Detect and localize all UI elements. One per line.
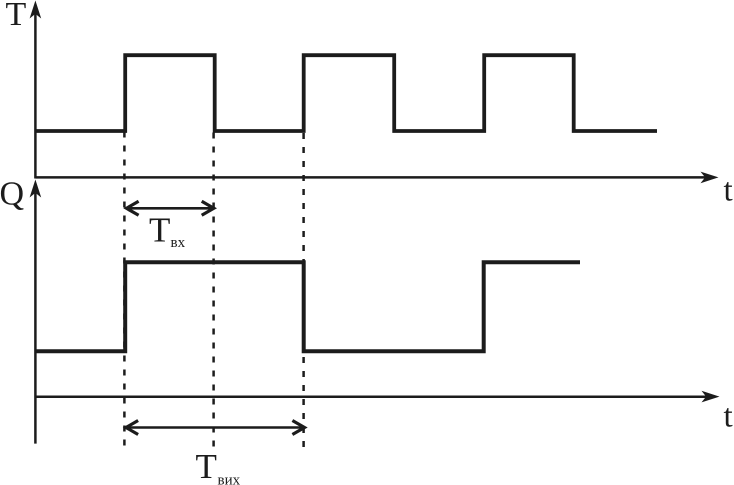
svg-text:T: T <box>149 211 170 250</box>
svg-text:Q: Q <box>0 176 24 213</box>
svg-text:T: T <box>196 447 217 485</box>
svg-text:вх: вх <box>171 235 186 251</box>
svg-text:T: T <box>6 0 27 33</box>
svg-text:t: t <box>724 399 733 435</box>
svg-text:t: t <box>724 173 733 209</box>
svg-text:вих: вих <box>218 472 241 485</box>
